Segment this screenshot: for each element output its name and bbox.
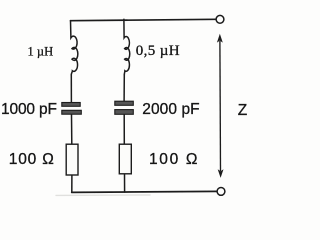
wire bottom rail	[72, 191, 217, 192]
wire right branch between R2 and bottom rail	[124, 174, 126, 192]
svg-text:2000 pF: 2000 pF	[142, 101, 199, 118]
inductor L1 1uH coil	[71, 21, 78, 75]
wire left branch between C1 and R1	[71, 114, 73, 144]
wire left branch between R1 and bottom rail	[71, 175, 73, 192]
wire right branch between C2 and R2	[123, 114, 125, 144]
inductor L2 0.5uH coil	[124, 19, 130, 75]
terminal top	[216, 15, 224, 23]
wire right branch between L2 and C2	[123, 75, 125, 101]
Z arrow head down	[218, 169, 224, 178]
wire top rail	[71, 19, 216, 20]
resistor R1 body	[66, 144, 78, 175]
capacitor C2 top plate	[115, 101, 134, 105]
capacitor C2 bottom plate	[115, 110, 134, 115]
svg-text:1 µH: 1 µH	[28, 44, 54, 58]
terminal bottom	[217, 188, 225, 196]
resistor R2 body	[119, 144, 131, 174]
svg-text:100 Ω: 100 Ω	[9, 151, 54, 168]
wire left branch between L1 and C1	[70, 75, 72, 103]
capacitor C1 top plate	[62, 103, 80, 107]
svg-text:Z: Z	[238, 102, 247, 119]
svg-text:1000 pF: 1000 pF	[1, 101, 57, 118]
scan shadow under bottom rail	[56, 194, 150, 196]
Z arrow shaft	[219, 41, 222, 171]
svg-text:100 Ω: 100 Ω	[149, 151, 198, 168]
svg-text:0,5 µH: 0,5 µH	[136, 43, 180, 59]
Z arrow head up	[217, 34, 223, 43]
capacitor C1 bottom plate	[62, 110, 82, 114]
